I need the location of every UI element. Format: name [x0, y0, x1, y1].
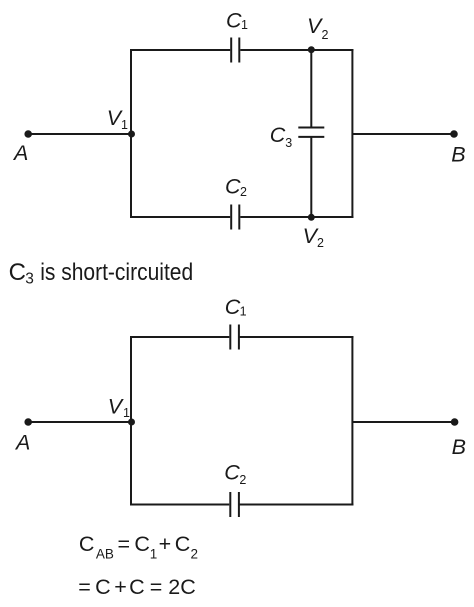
svg-text:3: 3: [25, 270, 34, 287]
svg-text:3: 3: [285, 136, 292, 150]
svg-text:2: 2: [239, 473, 246, 487]
svg-text:C: C: [175, 532, 191, 556]
svg-text:2C: 2C: [168, 575, 195, 599]
svg-text:=: =: [118, 532, 131, 556]
svg-text:A: A: [14, 431, 30, 455]
svg-text:C: C: [224, 460, 240, 484]
svg-text:C: C: [95, 575, 111, 599]
svg-text:=: =: [150, 575, 163, 599]
svg-text:2: 2: [240, 185, 247, 199]
svg-text:1: 1: [150, 547, 158, 562]
svg-text:C: C: [225, 295, 241, 319]
svg-text:1: 1: [241, 18, 248, 32]
svg-text:2: 2: [317, 236, 324, 250]
svg-text:C: C: [226, 8, 242, 32]
svg-text:C: C: [134, 532, 150, 556]
svg-text:1: 1: [240, 305, 247, 319]
svg-text:C: C: [270, 123, 286, 147]
svg-text:=: =: [78, 575, 91, 599]
svg-text:AB: AB: [96, 547, 114, 562]
svg-text:2: 2: [322, 28, 329, 42]
svg-text:C: C: [129, 575, 145, 599]
svg-text:1: 1: [121, 118, 128, 132]
svg-text:C: C: [79, 532, 95, 556]
svg-text:+: +: [159, 532, 172, 556]
svg-text:C: C: [225, 175, 241, 199]
svg-text:B: B: [451, 143, 465, 167]
svg-text:1: 1: [123, 406, 130, 420]
svg-text:B: B: [452, 435, 466, 459]
svg-text:A: A: [12, 141, 28, 165]
svg-text:C: C: [9, 259, 26, 286]
svg-text:2: 2: [191, 547, 199, 562]
svg-text:+: +: [114, 575, 127, 599]
svg-text:is short-circuited: is short-circuited: [40, 259, 193, 286]
